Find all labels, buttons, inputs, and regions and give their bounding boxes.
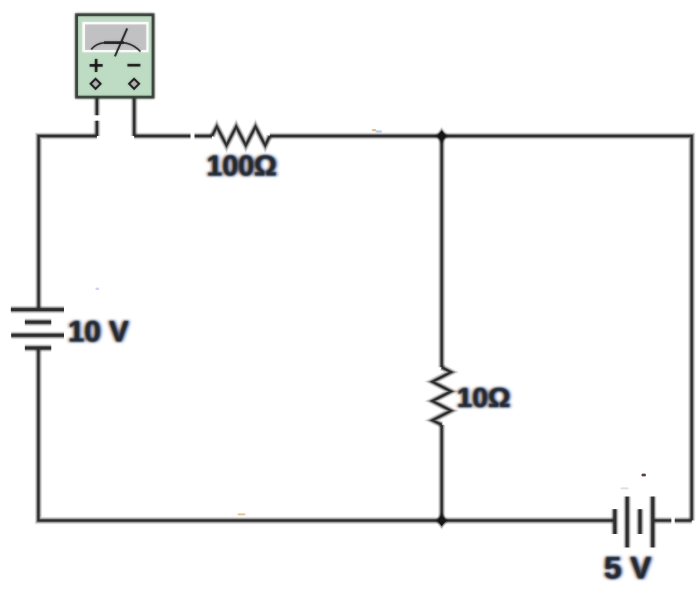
artifact speck on top wire [372, 129, 382, 133]
labels: chromatic fringes + blurred dark core + semi-crisp overlay [67, 151, 653, 586]
artifact speck on bottom area [238, 513, 246, 515]
wire core layer [38, 91, 691, 521]
battery plate halo layers [11, 310, 653, 548]
battery plate core layer [11, 310, 653, 548]
artifact speck near 5V battery [642, 474, 646, 477]
artifact speck above 10V [96, 288, 100, 290]
meter blurred + crisp overlay [77, 15, 153, 97]
junction dot halo + core [437, 130, 446, 526]
wire halo layers [38, 91, 691, 521]
